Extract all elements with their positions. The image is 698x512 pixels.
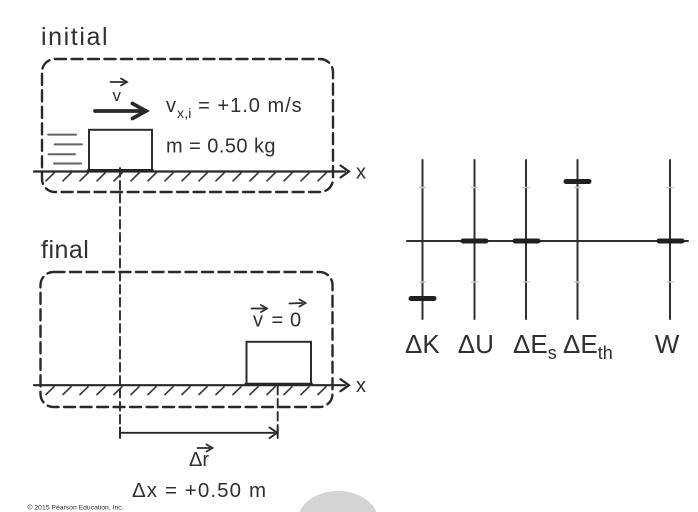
block (final) bottom contact line	[246, 383, 312, 386]
bar value marker ΔEth (positive)	[566, 179, 589, 184]
svg-text:x: x	[356, 162, 366, 184]
initial system boundary (dashed box)	[42, 59, 333, 192]
bar value marker ΔEs (zero)	[515, 239, 538, 244]
energy bar axis ΔEth	[577, 160, 579, 319]
gray corner blob	[298, 491, 378, 512]
energy bar axis W	[669, 160, 671, 319]
energy bar axis ΔU	[474, 160, 476, 319]
ground hatching (initial)	[46, 173, 326, 181]
faint scale ticks	[420, 188, 674, 283]
svg-text:ΔK: ΔK	[405, 329, 440, 359]
svg-text:ΔU: ΔU	[458, 329, 494, 359]
block (initial)	[89, 130, 152, 171]
final-position dashed reference line	[277, 386, 279, 438]
svg-text:initial: initial	[41, 23, 109, 51]
energy bar axis ΔEs	[525, 160, 527, 319]
svg-text:v: v	[253, 310, 263, 332]
bar value marker W (zero)	[659, 239, 682, 244]
svg-text:v: v	[113, 86, 122, 105]
svg-text:0: 0	[290, 310, 301, 332]
svg-text:ΔEs: ΔEs	[513, 329, 557, 363]
ground hatching (final)	[46, 387, 326, 395]
bar value marker ΔU (zero)	[463, 239, 486, 244]
svg-text:final: final	[41, 236, 89, 264]
block (initial) bottom contact line	[89, 169, 153, 172]
ground line (initial) with x-axis arrow	[34, 170, 345, 172]
bar value marker ΔK (negative)	[411, 296, 434, 301]
motion lines behind block	[48, 135, 82, 164]
svg-text:=: =	[272, 310, 284, 332]
svg-text:ΔEth: ΔEth	[563, 329, 613, 363]
velocity vector arrow (thick)	[95, 109, 142, 113]
svg-text:© 2015 Pearson Education, Inc.: © 2015 Pearson Education, Inc.	[28, 504, 124, 512]
block (final)	[247, 342, 312, 385]
svg-text:x: x	[356, 375, 366, 397]
zero line of energy chart	[407, 240, 688, 242]
displacement dimension arrow	[120, 432, 274, 434]
ground line (final) with x-axis arrow	[34, 384, 345, 386]
svg-text:vx,i = +1.0 m/s: vx,i = +1.0 m/s	[166, 95, 303, 121]
initial-position dashed reference line	[119, 168, 121, 438]
energy bar axis ΔK	[422, 160, 424, 319]
svg-text:W: W	[655, 329, 680, 359]
svg-text:Δx = +0.50 m: Δx = +0.50 m	[132, 479, 267, 502]
final system boundary (dashed box)	[41, 272, 333, 407]
svg-text:m = 0.50 kg: m = 0.50 kg	[166, 136, 276, 158]
